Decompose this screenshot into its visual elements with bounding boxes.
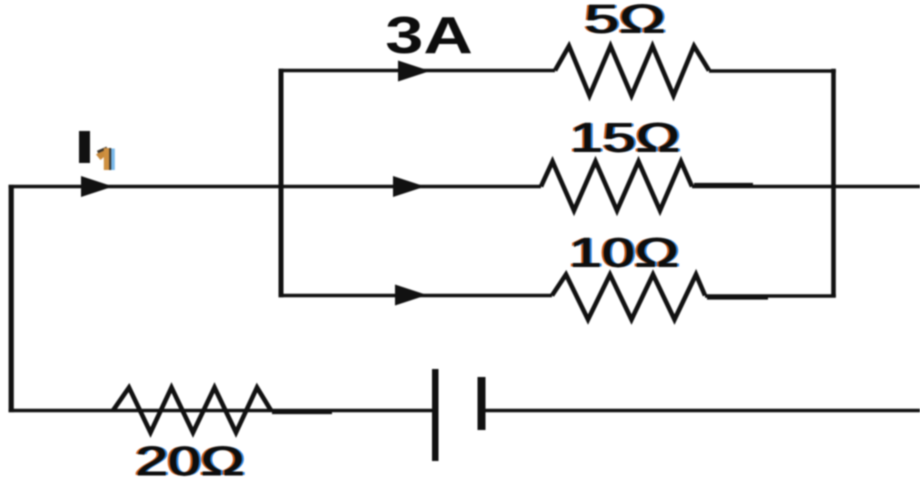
label 20-ohm (orange fringe, blue fringe, black core) — [133, 438, 247, 483]
resistor R4 20-ohm zigzag — [113, 388, 271, 433]
wire: parallel-section left vertical — [279, 69, 284, 297]
label 10-ohm (orange fringe, blue fringe, black core) — [566, 230, 681, 276]
label I1 subscript 1 (custom two-tone glyph) — [96, 148, 115, 170]
resistor R3 10-ohm zigzag — [552, 275, 705, 320]
svg-text:5Ω: 5Ω — [585, 0, 666, 42]
wire: 20-ohm right lead overlap doubling — [272, 412, 332, 414]
wire: bottom horizontal right of battery — [481, 409, 920, 412]
wire: 10-ohm right lead overlap doubling — [707, 297, 768, 299]
wire: top branch right of 5-ohm resistor — [709, 69, 836, 72]
battery B1 long plate — [432, 369, 439, 461]
label I (of I1) drawn as bar — [79, 131, 90, 163]
wire: bottom branch left of 10-ohm resistor — [279, 294, 552, 297]
svg-text:10Ω: 10Ω — [569, 230, 679, 276]
wire: parallel-section right vertical — [831, 69, 836, 297]
svg-text:3A: 3A — [385, 6, 473, 64]
label 3A — [385, 6, 473, 64]
wire: top branch left of 5-ohm resistor — [279, 69, 555, 72]
arrowhead: bottom branch — [395, 285, 427, 306]
wire: middle horizontal right of 15-ohm resistor — [692, 185, 920, 188]
wire: bottom branch right of 10-ohm resistor — [705, 294, 836, 297]
arrowhead: middle branch — [393, 176, 425, 197]
label 15-ohm (orange fringe, blue fringe, black core) — [567, 115, 682, 161]
svg-text:20Ω: 20Ω — [135, 438, 244, 483]
wire: middle horizontal left of 15-ohm resistor — [9, 185, 541, 188]
resistor R2 15-ohm zigzag — [541, 162, 692, 211]
wire: 15-ohm right lead overlap doubling — [694, 183, 753, 185]
svg-text:15Ω: 15Ω — [570, 115, 680, 161]
arrowhead: current I1 on middle wire — [81, 176, 113, 197]
arrowhead: 3A current on top branch — [398, 61, 430, 82]
wire: left vertical — [9, 185, 14, 412]
wire: bottom horizontal left of battery — [9, 409, 432, 412]
resistor R1 5-ohm zigzag — [555, 46, 709, 96]
battery B1 short plate — [478, 377, 486, 430]
label 5-ohm (orange fringe, blue fringe, black core) — [582, 0, 668, 42]
